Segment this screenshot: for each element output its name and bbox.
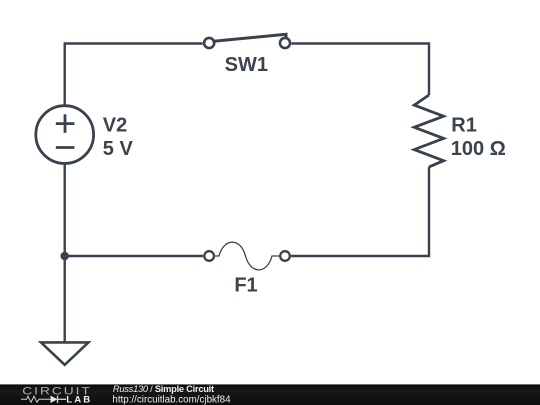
CircuitLab logo wire with resistor <box>21 396 51 402</box>
voltage source V2 <box>36 106 94 164</box>
svg-text:http://circuitlab.com/cjbkf84: http://circuitlab.com/cjbkf84 <box>112 395 231 405</box>
wire from V2 bottom through junction to ground <box>63 164 65 343</box>
svg-text:V2: V2 <box>103 115 127 137</box>
svg-text:R1: R1 <box>451 115 477 137</box>
svg-text:100 Ω: 100 Ω <box>451 138 506 160</box>
footer bar <box>0 384 540 405</box>
svg-text:LAB: LAB <box>66 395 92 405</box>
switch SW1 <box>204 34 290 48</box>
CircuitLab logo diode <box>51 396 58 403</box>
wire from SW1 right terminal to R1 top <box>292 44 430 96</box>
svg-text:F1: F1 <box>234 274 257 296</box>
ground <box>41 342 88 364</box>
wire from R1 bottom to F1 right terminal <box>291 167 429 256</box>
fuse F1 <box>204 242 289 270</box>
resistor R1 <box>414 95 443 167</box>
wire from V2 top to SW1 left terminal <box>65 44 203 106</box>
node junction dot <box>60 252 69 261</box>
wire from F1 left terminal to junction <box>65 255 203 257</box>
svg-text:5 V: 5 V <box>103 138 134 160</box>
svg-text:SW1: SW1 <box>225 54 268 76</box>
svg-text:Russ130 / Simple Circuit: Russ130 / Simple Circuit <box>113 384 214 394</box>
